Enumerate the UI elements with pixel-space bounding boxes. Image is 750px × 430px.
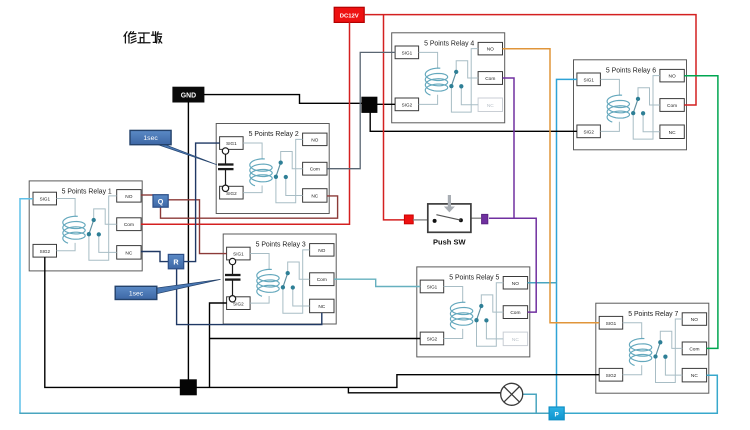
relay K4 switch armature <box>451 72 456 86</box>
svg-text:5 Points Relay 5: 5 Points Relay 5 <box>449 275 499 282</box>
callout 1sec pointing at capacitor C3 <box>115 279 220 299</box>
relay K1 internal wire SIG2 to coil <box>57 243 76 251</box>
svg-text:Push SW: Push SW <box>433 237 466 246</box>
wire cyan P-net branch from lamp right terminal <box>523 394 536 413</box>
push switch SW1 lead to purple terminal <box>471 217 481 219</box>
node marker Q <box>153 195 168 208</box>
wire black branch to K5 SIG2 <box>210 338 421 340</box>
relay K5 switch wire to NC <box>486 320 503 338</box>
relay K4 pin SIG2 <box>395 98 419 111</box>
push switch SW1 lead from red terminal <box>413 219 428 221</box>
push switch red terminal block <box>404 215 413 224</box>
relay K3 switch contact dots <box>281 271 295 290</box>
relay K6 pin SIG2 <box>577 125 601 138</box>
relay K2 box (5 Points Relay 2) <box>216 124 329 214</box>
relay K2 switch contact dots <box>274 160 288 179</box>
svg-text:P: P <box>554 411 559 418</box>
svg-text:Com: Com <box>317 277 327 283</box>
relay K3 internal wire SIG2 to coil <box>250 296 269 303</box>
relay K5 internal wire SIG1 to coil <box>444 286 463 302</box>
svg-text:Com: Com <box>310 167 320 173</box>
relay K6 box (5 Points Relay 6) <box>574 60 687 150</box>
relay K6 switch contact dots <box>631 97 645 116</box>
relay K2 coil <box>250 159 272 186</box>
DC12V supply label <box>334 7 364 22</box>
relay K3 pin Com <box>310 273 334 286</box>
svg-text:NO: NO <box>318 248 325 254</box>
relay K7 internal wire SIG2 to coil <box>623 365 642 375</box>
relay K7 pin NO <box>682 313 706 326</box>
svg-text:Q: Q <box>158 197 164 206</box>
relay K1 switch contact dots <box>87 218 101 237</box>
relay K7 coil <box>629 339 651 366</box>
relay K1 pin SIG1 <box>33 192 57 205</box>
push switch SW1 actuator arrow <box>444 195 455 212</box>
svg-text:5 Points Relay 3: 5 Points Relay 3 <box>256 242 306 249</box>
wire black J1 to K4 SIG2 <box>377 103 395 105</box>
svg-text:SIG2: SIG2 <box>233 301 244 306</box>
svg-text:Com: Com <box>667 103 677 109</box>
wire navy R marker down and right to K3 NC <box>177 269 322 325</box>
svg-text:SIG2: SIG2 <box>226 191 237 196</box>
wire maroon K1 NO to Q marker <box>141 194 153 196</box>
lamp L1 (indicator) <box>501 383 523 405</box>
svg-text:R: R <box>173 258 179 267</box>
relay K6 pin Com <box>660 99 684 112</box>
svg-text:GND: GND <box>181 92 196 99</box>
relay K1 switch wire to Com <box>94 209 117 224</box>
wire red DC12V right and down to K6 Com <box>364 15 696 105</box>
relay K3 pin SIG2 <box>227 297 251 310</box>
relay K1 pin NO <box>117 190 141 203</box>
svg-text:1sec: 1sec <box>143 135 158 142</box>
wire navy R marker right and up to K2 SIG1 <box>184 143 220 262</box>
relay K1 switch armature <box>89 220 94 234</box>
relay K6 internal wire SIG2 to coil <box>600 122 619 132</box>
relay K3 box (5 Points Relay 3) <box>223 234 336 324</box>
svg-text:NC: NC <box>669 130 676 136</box>
wire green K6 NO down to K7 Com <box>684 76 718 349</box>
push switch SW1 contacts and lever <box>433 215 463 223</box>
relay K6 pin NC <box>660 125 684 139</box>
svg-text:SIG1: SIG1 <box>427 285 438 290</box>
page title 修正版 (revised version) drawn as strokes <box>124 32 162 43</box>
relay K7 pin NC <box>682 368 706 382</box>
relay K6 switch wire to Com <box>638 88 660 105</box>
svg-text:DC12V: DC12V <box>340 14 359 20</box>
svg-text:1sec: 1sec <box>129 291 144 298</box>
wire navy K1 NC to R marker <box>141 252 168 262</box>
svg-text:NO: NO <box>512 281 519 287</box>
relay K1 switch wire to NO <box>89 196 117 260</box>
relay K2 internal wire SIG2 to coil <box>243 186 262 193</box>
relay K1 pin Com <box>117 218 141 231</box>
relay K6 coil <box>607 95 629 122</box>
wire maroon Q marker down, right, up to K2 NC <box>161 196 338 218</box>
wire maroon Q right side down to K3 SIG1 <box>168 200 226 254</box>
relay K1 box (5 Points Relay 1) <box>29 181 142 271</box>
svg-text:5 Points Relay 1: 5 Points Relay 1 <box>62 189 112 196</box>
relay K4 coil <box>425 68 447 95</box>
wire black J1 down and right to K6 SIG2 <box>370 112 577 131</box>
svg-text:NC: NC <box>318 304 325 310</box>
wire purple K4 Com down to push switch branch <box>503 78 515 218</box>
relay K1 internal wire SIG1 to coil <box>57 199 76 217</box>
relay K7 switch wire to NC <box>665 357 682 375</box>
svg-text:NO: NO <box>487 47 494 53</box>
relay K5 coil <box>450 302 472 329</box>
svg-text:SIG1: SIG1 <box>40 197 51 202</box>
wire black bottom bus branch to lamp left terminal <box>348 387 500 392</box>
relay K2 switch armature <box>276 163 281 177</box>
svg-text:SIG1: SIG1 <box>583 77 594 82</box>
relay K4 switch wire to Com <box>456 61 478 78</box>
relay K2 pin SIG1 <box>220 137 244 150</box>
wire black GND box down to junction J2 <box>187 102 189 380</box>
relay K5 switch wire to NO <box>477 283 504 346</box>
svg-text:NO: NO <box>311 137 318 143</box>
relay K3 coil <box>257 269 279 296</box>
svg-text:SIG1: SIG1 <box>233 252 244 257</box>
svg-text:Com: Com <box>689 346 699 352</box>
relay K7 switch wire to NO <box>656 319 683 382</box>
wire black GND to junction square <box>204 95 362 104</box>
relay K7 internal wire SIG1 to coil <box>623 323 642 339</box>
GND supply label <box>173 87 204 102</box>
relay K4 pin SIG1 <box>395 46 419 59</box>
svg-text:5 Points Relay 7: 5 Points Relay 7 <box>628 311 678 318</box>
relay K5 switch armature <box>477 306 482 320</box>
svg-text:NC: NC <box>487 103 494 109</box>
svg-text:SIG2: SIG2 <box>583 129 594 134</box>
wire purple push switch right terminal to K5 Com <box>489 218 536 312</box>
svg-text:SIG2: SIG2 <box>427 337 438 342</box>
svg-text:NC: NC <box>125 250 132 256</box>
svg-text:NC: NC <box>512 337 519 343</box>
push switch purple terminal block <box>482 214 488 223</box>
relay K4 internal wire SIG1 to coil <box>419 52 438 68</box>
relay K2 switch wire to Com <box>281 152 303 169</box>
wire cyan P-net bottom bus right part up to K7 NC <box>557 375 718 413</box>
relay K5 internal wire SIG2 to coil <box>444 329 463 339</box>
relay K4 pin Com <box>478 72 502 85</box>
wire cyan P-net bottom bus left part <box>19 412 556 414</box>
relay K3 pin NO <box>310 244 334 257</box>
relay K3 switch wire to NC <box>293 288 310 306</box>
relay K6 internal wire SIG1 to coil <box>600 79 619 95</box>
relay K6 pin SIG1 <box>577 73 601 86</box>
push switch SW1 body <box>428 204 471 232</box>
junction square J2 on GND bottom bus <box>180 380 196 395</box>
svg-text:SIG2: SIG2 <box>402 102 413 107</box>
relay K1 pin SIG2 <box>33 244 57 257</box>
relay K5 box (5 Points Relay 5) <box>417 267 530 357</box>
svg-text:SIG2: SIG2 <box>40 249 51 254</box>
relay K5 pin NC <box>503 332 527 346</box>
relay K3 internal wire SIG1 to coil <box>250 254 269 270</box>
relay K7 pin SIG1 <box>599 316 623 329</box>
svg-text:SIG1: SIG1 <box>606 321 617 326</box>
relay K4 pin NO <box>478 42 502 55</box>
relay K5 switch contact dots <box>474 304 488 323</box>
relay K2 pin NC <box>303 189 327 203</box>
relay K6 pin NO <box>660 69 684 82</box>
svg-text:Com: Com <box>510 310 520 316</box>
relay K7 box (5 Points Relay 7) <box>596 303 709 393</box>
wire cyan P-net: K1 SIG1 stub and left edge drop <box>20 199 33 414</box>
svg-text:SIG1: SIG1 <box>226 141 237 146</box>
relay K4 switch wire to NO <box>451 49 478 112</box>
relay K2 switch wire to NO <box>276 139 303 202</box>
relay K5 pin NO <box>503 277 527 290</box>
relay K2 switch wire to NC <box>286 177 303 195</box>
relay K4 box (5 Points Relay 4) <box>392 33 505 123</box>
relay K5 switch wire to Com <box>481 295 503 312</box>
relay K7 pin Com <box>682 342 706 355</box>
relay K2 pin NO <box>303 133 327 146</box>
wire cyan P-net vertical riser to K6 SIG1 <box>557 79 577 413</box>
wire cyan P-net branch from K5 NO <box>528 282 557 284</box>
relay K1 coil <box>63 216 85 243</box>
relay K3 pin SIG1 <box>227 247 251 260</box>
node marker P <box>549 407 564 420</box>
relay K4 switch wire to NC <box>461 86 478 104</box>
svg-text:NC: NC <box>691 373 698 379</box>
relay K2 pin SIG2 <box>220 186 244 199</box>
wire black bottom bus right, up to K7 SIG2 <box>196 375 599 388</box>
relay K7 pin SIG2 <box>599 368 623 381</box>
relay K6 switch wire to NO <box>633 76 660 139</box>
svg-text:NO: NO <box>125 194 132 200</box>
relay K7 switch contact dots <box>653 340 667 359</box>
relay K7 switch wire to Com <box>660 331 682 348</box>
svg-text:NO: NO <box>691 317 698 323</box>
relay K5 pin SIG1 <box>420 280 444 293</box>
wire orange K4 NO down to K7 SIG1 <box>503 49 600 323</box>
relay K2 internal wire SIG1 to coil <box>243 143 262 159</box>
svg-text:NC: NC <box>311 193 318 199</box>
relay K5 pin SIG2 <box>420 332 444 345</box>
wire black K1 SIG2 down to bottom bus into J2 <box>45 257 181 387</box>
svg-text:5 Points Relay 6: 5 Points Relay 6 <box>606 67 656 74</box>
wire slate K2 Com up to K4 SIG1 <box>327 52 395 168</box>
relay K2 capacitor C2 between SIG1 and SIG2 <box>218 148 234 192</box>
wire red DC12V down to K1 Com <box>141 22 350 224</box>
relay K6 switch wire to NC <box>643 113 660 131</box>
relay K4 pin NC <box>478 98 502 112</box>
callout 1sec pointing at capacitor C2 <box>130 130 217 164</box>
relay K5 pin Com <box>503 306 527 319</box>
relay K1 pin NC <box>117 246 141 260</box>
relay K7 switch armature <box>656 342 661 356</box>
svg-text:5 Points Relay 4: 5 Points Relay 4 <box>424 40 474 47</box>
svg-text:SIG1: SIG1 <box>402 50 413 55</box>
relay K3 pin NC <box>310 299 334 313</box>
node marker R <box>168 254 183 268</box>
relay K3 switch wire to NO <box>283 250 310 313</box>
junction square J1 on GND net <box>362 97 377 112</box>
relay K4 switch contact dots <box>449 70 463 89</box>
relay K3 capacitor C3 between SIG1 and SIG2 <box>225 258 241 302</box>
svg-text:NO: NO <box>668 74 675 80</box>
svg-text:5 Points Relay 2: 5 Points Relay 2 <box>249 131 299 138</box>
relay K3 switch armature <box>283 273 288 287</box>
relay K2 pin Com <box>303 162 327 175</box>
wire red branch down to push switch left terminal <box>384 15 406 220</box>
wire black K3 SIG2 left then down to bottom bus <box>210 303 227 387</box>
relay K1 switch wire to NC <box>99 234 117 252</box>
svg-text:Com: Com <box>124 222 134 228</box>
relay K4 internal wire SIG2 to coil <box>419 95 438 105</box>
svg-text:Com: Com <box>485 76 495 82</box>
relay K6 switch armature <box>633 99 638 113</box>
wire teal K3 Com to K5 SIG1 <box>334 279 420 286</box>
relay K3 switch wire to Com <box>288 262 310 279</box>
svg-text:SIG2: SIG2 <box>606 373 617 378</box>
